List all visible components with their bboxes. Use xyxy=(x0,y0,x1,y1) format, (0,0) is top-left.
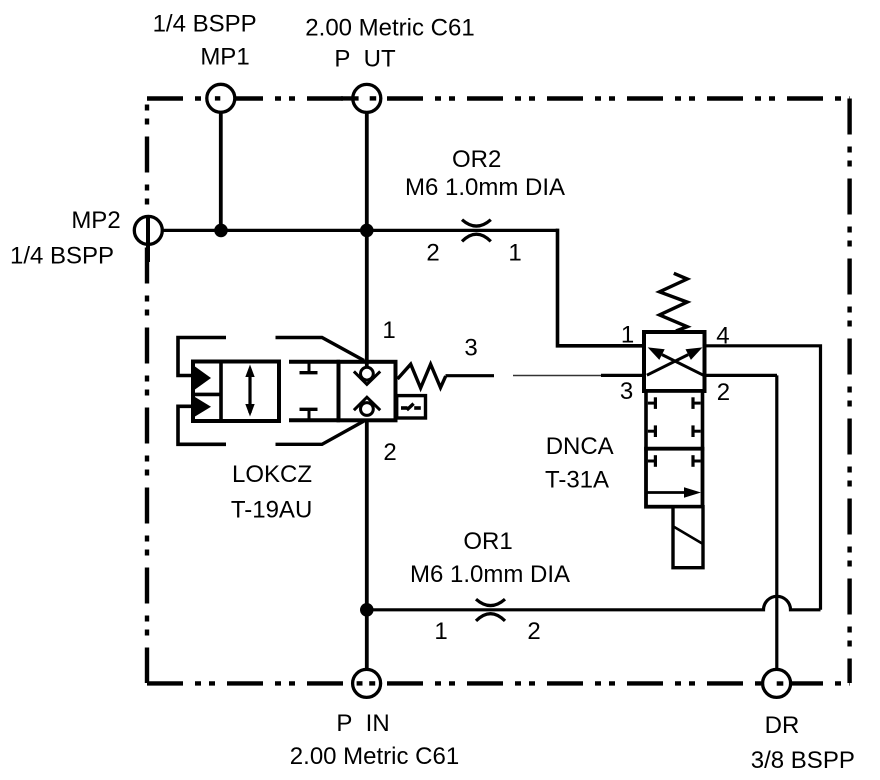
svg-text:LOKCZ: LOKCZ xyxy=(232,461,312,488)
port P UT center dash xyxy=(341,96,359,100)
valve DNCA tick row2 left crossbar xyxy=(654,425,657,437)
valve LOKCZ spring cavity bottom rail xyxy=(289,418,340,422)
valve DNCA tick row1 right stem xyxy=(693,402,701,405)
valve DNCA tick row2 right stem xyxy=(693,430,701,433)
valve DNCA arrowhead to port 1 xyxy=(648,347,665,360)
port MP2 center dash xyxy=(146,216,150,262)
valve DNCA tick row2 left stem xyxy=(648,430,656,433)
node junction P IN bottom rail xyxy=(360,603,374,617)
port P UT circle xyxy=(353,84,381,112)
valve DNCA spring xyxy=(660,273,688,331)
wire DR vertical xyxy=(775,375,778,669)
svg-text:DR: DR xyxy=(765,712,800,739)
valve LOKCZ port 1 internal stub xyxy=(365,360,369,368)
valve DNCA tick row3 left crossbar xyxy=(654,455,657,467)
svg-text:4: 4 xyxy=(716,323,729,350)
port MP1 center dash xyxy=(215,96,220,100)
valve LOKCZ envelope leader bottom-right xyxy=(276,421,365,444)
valve DNCA tick row2 right crossbar xyxy=(691,425,694,437)
valve LOKCZ envelope leader top-right xyxy=(276,338,365,361)
svg-text:OR2: OR2 xyxy=(452,146,501,173)
wire DNCA port 2 horizontal xyxy=(705,374,778,377)
valve LOKCZ pilot triangle lower xyxy=(195,397,211,417)
valve DNCA tick row1 right crossbar xyxy=(691,397,694,409)
svg-text:1: 1 xyxy=(621,322,634,349)
valve LOKCZ manual override box xyxy=(397,396,426,418)
port MP1 circle xyxy=(207,84,235,112)
manifold enclosure right edge xyxy=(847,99,851,684)
orifice OR1 xyxy=(476,599,505,621)
valve LOKCZ bottom tick crossbar xyxy=(300,408,318,411)
svg-text:1: 1 xyxy=(434,618,447,645)
valve LOKCZ actuator divider horizontal xyxy=(193,393,221,397)
valve DNCA internal arrow stem xyxy=(647,491,686,494)
svg-text:M6 1.0mm DIA: M6 1.0mm DIA xyxy=(405,174,565,201)
svg-text:2: 2 xyxy=(527,618,540,645)
valve LOKCZ top tick stem xyxy=(308,362,311,373)
valve DNCA solenoid diagonal xyxy=(673,526,703,544)
valve DNCA solenoid section xyxy=(646,449,703,507)
svg-text:MP1: MP1 xyxy=(200,43,249,70)
orifice OR2 xyxy=(462,220,491,242)
valve LOKCZ double arrow head down xyxy=(245,404,254,417)
valve LOKCZ envelope bracket bottom-left xyxy=(178,406,226,444)
valve LOKCZ manual override symbol xyxy=(401,404,421,410)
wire MP2 horizontal xyxy=(162,229,558,232)
valve LOKCZ lower poppet ball xyxy=(361,403,374,416)
svg-text:1: 1 xyxy=(382,317,395,344)
valve DNCA tick row1 left stem xyxy=(648,402,656,405)
svg-text:P UT: P UT xyxy=(334,45,396,72)
wire pilot line thin xyxy=(513,375,601,377)
manifold enclosure left edge xyxy=(145,99,149,214)
wire bottom rail with crossover hop xyxy=(367,596,821,610)
wire main vertical lower to P IN xyxy=(365,415,369,670)
svg-text:3: 3 xyxy=(464,335,477,362)
valve LOKCZ upper poppet seat xyxy=(354,371,380,384)
valve LOKCZ spring cavity top rail xyxy=(289,360,340,364)
valve DNCA flow path 3 to 4 xyxy=(647,355,688,376)
wire DNCA port 4 to bottom corner xyxy=(705,346,821,610)
valve DNCA flow path 2 to 1 xyxy=(662,355,703,376)
port P IN center dash xyxy=(357,681,363,685)
valve LOKCZ envelope bracket top-left xyxy=(178,338,226,376)
svg-text:3/8 BSPP: 3/8 BSPP xyxy=(751,747,855,774)
valve LOKCZ actuator box xyxy=(193,362,279,422)
valve LOKCZ double arrow stem xyxy=(248,369,251,413)
wire MP1 stub xyxy=(219,112,223,230)
valve LOKCZ spring xyxy=(398,364,446,388)
node junction P UT line xyxy=(360,224,374,238)
manifold enclosure top edge xyxy=(147,96,850,100)
valve DNCA solenoid coil box xyxy=(673,507,703,568)
valve DNCA spring cavity section xyxy=(646,391,703,449)
wire OR2 to DNCA port 1 corner xyxy=(558,229,646,346)
valve DNCA internal arrow head xyxy=(684,487,701,497)
svg-text:3: 3 xyxy=(620,378,633,405)
svg-text:T-31A: T-31A xyxy=(545,466,609,493)
valve DNCA main body box xyxy=(644,332,705,391)
svg-text:1/4 BSPP: 1/4 BSPP xyxy=(10,243,114,270)
svg-text:2.00 Metric C61: 2.00 Metric C61 xyxy=(305,15,474,42)
svg-text:2.00 Metric C61: 2.00 Metric C61 xyxy=(290,743,459,770)
svg-text:2: 2 xyxy=(383,439,396,466)
port P IN circle xyxy=(353,669,381,697)
svg-text:1/4 BSPP: 1/4 BSPP xyxy=(153,11,257,38)
valve DNCA arrowhead to port 4 xyxy=(686,347,703,360)
valve DNCA tick row1 left crossbar xyxy=(654,397,657,409)
valve LOKCZ upper poppet ball xyxy=(361,367,374,380)
svg-text:2: 2 xyxy=(426,240,439,267)
port MP2 circle xyxy=(134,216,162,244)
valve LOKCZ bottom tick stem xyxy=(308,409,311,420)
svg-text:T-19AU: T-19AU xyxy=(231,497,312,524)
valve LOKCZ main body box xyxy=(339,362,396,421)
valve LOKCZ lower poppet seat xyxy=(354,397,380,410)
valve LOKCZ pilot triangle upper xyxy=(195,367,211,390)
svg-text:M6 1.0mm DIA: M6 1.0mm DIA xyxy=(410,561,570,588)
valve DNCA tick row3 right crossbar xyxy=(691,455,694,467)
port DR center dash xyxy=(777,681,784,685)
valve DNCA tick row3 right stem xyxy=(693,460,701,463)
wire P UT main vertical upper xyxy=(365,112,369,368)
wire DNCA port 3 lead xyxy=(601,374,646,377)
valve DNCA tick row3 left stem xyxy=(648,460,656,463)
node junction MP1/MP2 xyxy=(214,224,228,238)
svg-text:MP2: MP2 xyxy=(71,207,120,234)
valve LOKCZ actuator divider vertical xyxy=(219,362,223,422)
valve LOKCZ top tick crossbar xyxy=(300,371,318,374)
svg-text:DNCA: DNCA xyxy=(546,433,614,460)
port DR circle xyxy=(763,669,791,697)
svg-text:1: 1 xyxy=(508,240,521,267)
svg-text:2: 2 xyxy=(717,379,730,406)
svg-text:OR1: OR1 xyxy=(463,528,512,555)
svg-text:P IN: P IN xyxy=(336,710,389,737)
wire LOKCZ spring lead xyxy=(446,374,495,377)
manifold enclosure bottom edge xyxy=(147,681,850,685)
valve LOKCZ double arrow head up xyxy=(245,365,254,378)
